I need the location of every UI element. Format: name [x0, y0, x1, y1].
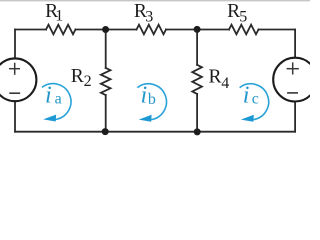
svg-text:c: c — [252, 91, 259, 108]
wire top between R3 and node B — [166, 29, 229, 31]
voltage source V2 circle — [273, 58, 317, 102]
wire top left segment — [15, 29, 46, 31]
node dot top-right junction — [194, 26, 201, 33]
svg-text:i: i — [141, 83, 148, 109]
resistor R3 — [137, 25, 167, 35]
wire R4 branch bottom lead — [196, 94, 198, 132]
svg-text:R: R — [227, 1, 240, 22]
svg-text:R: R — [209, 67, 222, 88]
wire top between R1 and node A — [76, 29, 137, 31]
V1 minus sign — [9, 92, 20, 94]
resistor R2 — [101, 68, 111, 95]
mesh current ib arrowhead — [139, 115, 152, 122]
top border line — [0, 0, 310, 1]
mesh current ia arc — [42, 84, 71, 120]
mesh current ia arrowhead — [43, 115, 56, 122]
svg-text:a: a — [55, 91, 62, 108]
voltage source V1 circle — [0, 58, 36, 101]
svg-text:3: 3 — [145, 8, 153, 25]
svg-text:i: i — [45, 83, 52, 109]
mesh current ib arc — [137, 84, 166, 120]
V2 minus sign — [287, 92, 298, 94]
mesh current ic arc — [240, 84, 269, 120]
svg-text:1: 1 — [55, 7, 63, 24]
resistor R1 — [46, 25, 76, 35]
wire bottom — [15, 131, 295, 133]
node dot bottom-right junction — [194, 128, 201, 135]
svg-text:5: 5 — [239, 9, 247, 26]
svg-text:2: 2 — [84, 73, 92, 90]
wire right vertical bottom — [294, 102, 296, 132]
svg-text:4: 4 — [221, 75, 229, 92]
resistor R4 — [192, 65, 202, 94]
node dot top-left junction — [102, 26, 109, 33]
wire R2 branch top lead — [105, 30, 107, 68]
node dot bottom-left junction — [102, 128, 109, 135]
wire R4 branch top lead — [196, 30, 198, 65]
svg-text:b: b — [148, 91, 156, 108]
wire right vertical top — [294, 30, 296, 58]
resistor R5 — [229, 25, 259, 35]
wire top right segment — [259, 29, 296, 31]
wire left vertical top — [14, 30, 16, 59]
V1 plus sign — [9, 63, 20, 75]
V2 plus sign — [287, 62, 299, 74]
svg-text:i: i — [243, 83, 250, 109]
svg-text:R: R — [71, 66, 84, 87]
mesh current ic arrowhead — [241, 115, 254, 122]
wire R2 branch bottom lead — [105, 95, 107, 132]
wire left vertical bottom — [14, 101, 16, 132]
